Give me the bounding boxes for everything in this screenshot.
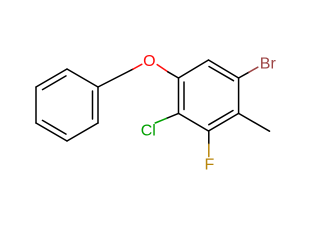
bond O-C1 red half <box>157 65 168 72</box>
wire: ring edge C1-C2 <box>179 60 209 78</box>
wire: ring edge UR-LR inner double line <box>92 91 94 119</box>
wire: ring edge C6-C1 inner double line <box>183 82 185 110</box>
wire: ring edge C6-C1 (double outer) <box>178 78 180 113</box>
bond O-CH2 red half (oxygen side) <box>133 64 142 69</box>
bond CH2-Cipso and O-CH2 black half (collinear chain O-CH2-ring) <box>98 69 133 87</box>
wire: ring edge UL-T inner double line <box>43 76 67 90</box>
wire: ring edge C4-C5 inner double line <box>209 111 233 125</box>
bond C6-Cl black half <box>166 113 178 118</box>
svg-text:Cl: Cl <box>141 122 156 139</box>
bond C3-Br brown half (bromine side) <box>249 67 258 72</box>
wire: ring edge C2-C3 inner double line <box>209 67 234 81</box>
wire: ring edge B-LL inner double line <box>43 120 67 134</box>
wire: ring edge T-UR <box>67 69 98 87</box>
wire: ring edge LR-B <box>67 123 98 141</box>
bond C5-F black half <box>208 131 210 144</box>
wire: ring edge LL-UL <box>35 87 37 123</box>
wire: ring edge UR-LR (double outer) <box>97 87 99 123</box>
wire: ring edge C4-C5 (double outer) <box>209 113 239 131</box>
left benzene ring (benzyl group) <box>36 69 98 141</box>
bond C4-CH3 (methyl) <box>239 113 270 131</box>
wire: ring edge C2-C3 (double outer) <box>209 60 239 78</box>
wire: ring edge B-LL (double outer) <box>36 123 67 141</box>
svg-text:O: O <box>143 53 155 70</box>
wire: ring edge C3-C4 <box>238 78 240 113</box>
bond O-C1 black half <box>168 72 179 78</box>
bond C3-Br black half <box>239 72 249 78</box>
svg-text:Br: Br <box>260 55 277 72</box>
right benzene ring <box>179 60 239 131</box>
svg-text:F: F <box>205 157 215 174</box>
bond C6-Cl green half (chlorine side) <box>155 118 166 123</box>
wire: ring edge UL-T (double outer) <box>36 69 67 87</box>
wire: ring edge C5-C6 <box>179 113 209 131</box>
bond C5-F gold half (fluorine side) <box>208 144 210 156</box>
